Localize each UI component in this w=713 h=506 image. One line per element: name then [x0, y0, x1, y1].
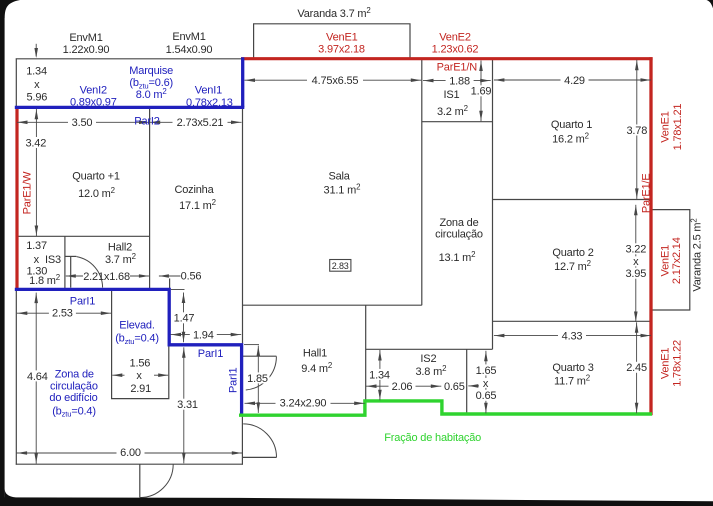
dim 4.29: [494, 79, 651, 81]
ParI marquise bottom (blue): [15, 106, 245, 109]
svg-text:1.34: 1.34: [26, 66, 47, 78]
dim text 2.53: [49, 307, 76, 318]
door hall2 leaf: [70, 256, 72, 287]
svg-text:2.91: 2.91: [130, 383, 151, 395]
varanda north box: [254, 24, 410, 58]
svg-text:13.1 m2: 13.1 m2: [439, 250, 476, 264]
dim text 2.45: [625, 362, 648, 373]
door bottom-left leaf: [139, 464, 141, 497]
svg-text:Marquise: Marquise: [129, 65, 173, 77]
dim 4.33: [494, 335, 651, 337]
svg-text:4.75x6.55: 4.75x6.55: [312, 75, 359, 87]
ParI marquise right (blue): [241, 57, 244, 107]
dim 0.56 arrow: [159, 275, 181, 277]
dim 2.53: [17, 312, 112, 314]
svg-text:1.54x0.90: 1.54x0.90: [166, 44, 213, 56]
dim text 1.34 (IS2): [369, 369, 391, 380]
wall hall1 east: [365, 305, 367, 400]
svg-text:2.21x1.68: 2.21x1.68: [83, 271, 130, 283]
svg-text:do edifício: do edifício: [49, 392, 97, 404]
svg-text:6.00: 6.00: [120, 447, 141, 459]
wall cozinha west x=149.6: [149, 107, 151, 289]
door hall1 leaf: [243, 355, 277, 357]
svg-text:4.29: 4.29: [564, 75, 585, 87]
svg-text:IS1: IS1: [444, 89, 460, 101]
dim text 3.22: [624, 243, 647, 254]
door hall entry swing arc: [243, 424, 276, 458]
svg-text:circulação: circulação: [50, 381, 98, 393]
ParE1/W exterior wall left (red): [15, 107, 18, 290]
dim text 1.94: [190, 329, 217, 340]
svg-text:12.0 m2: 12.0 m2: [78, 186, 115, 200]
svg-text:(bztu=0.4): (bztu=0.4): [115, 333, 159, 346]
dim text 4.64: [25, 370, 50, 381]
dim text 4.75x6.55: [307, 75, 363, 86]
svg-text:1.65: 1.65: [476, 365, 497, 377]
svg-text:IS2: IS2: [420, 353, 436, 365]
dim text 3.78: [625, 125, 648, 136]
svg-text:1.34: 1.34: [369, 369, 390, 381]
svg-text:IS3: IS3: [45, 254, 61, 266]
svg-text:Zona de: Zona de: [439, 217, 478, 229]
svg-text:3.42: 3.42: [25, 137, 46, 149]
dim text 3.24x2.90: [276, 397, 331, 408]
svg-text:4.64: 4.64: [27, 371, 48, 383]
svg-text:Quarto 2: Quarto 2: [552, 247, 593, 259]
svg-text:Hall1: Hall1: [303, 347, 327, 359]
frame bottom bar: [0, 497, 713, 506]
wall is2 east: [466, 349, 468, 414]
dim 3.50: [17, 121, 150, 123]
svg-text:ParE1/E: ParE1/E: [641, 173, 653, 213]
svg-text:ParI1: ParI1: [198, 348, 223, 360]
dim 2.21x1.68 left arrow: [66, 275, 83, 277]
svg-text:2.06: 2.06: [392, 381, 413, 393]
svg-text:0.78x2.13: 0.78x2.13: [186, 97, 233, 109]
svg-text:3.2 m2: 3.2 m2: [437, 104, 468, 118]
svg-text:circulação: circulação: [435, 228, 483, 240]
dim 4.64: [35, 293, 37, 464]
svg-text:ParI1: ParI1: [70, 295, 95, 307]
svg-text:Hall2: Hall2: [108, 241, 132, 253]
svg-text:ParI2: ParI2: [134, 115, 159, 127]
wall is3 east: [64, 236, 66, 289]
door hall2 head tick: [65, 255, 76, 257]
ParE1 exterior wall top (red): [241, 57, 653, 60]
svg-text:Fração de habitação: Fração de habitação: [384, 432, 481, 444]
svg-text:2.73x5.21: 2.73x5.21: [177, 117, 224, 129]
dim text 1.88: [446, 75, 474, 86]
svg-text:3.97x2.18: 3.97x2.18: [318, 43, 365, 55]
dim 1.65x0.65: [485, 351, 487, 414]
svg-text:8.0 m2: 8.0 m2: [136, 87, 167, 101]
wall nib 0.56: [169, 279, 171, 290]
svg-text:Varanda 3.7 m2: Varanda 3.7 m2: [297, 6, 370, 20]
svg-text:12.7 m2: 12.7 m2: [554, 259, 591, 273]
dim text 4.29: [561, 75, 589, 86]
frame left strip: [0, 0, 5, 506]
varanda east box: [652, 210, 690, 310]
ParI1 interior wall path (blue): [15, 289, 242, 415]
svg-text:31.1 m2: 31.1 m2: [324, 182, 361, 196]
svg-text:1.78x1.22: 1.78x1.22: [671, 340, 683, 387]
dim text 3.95: [624, 268, 647, 279]
svg-text:1.8 m2: 1.8 m2: [29, 273, 60, 287]
svg-text:1.23x0.62: 1.23x0.62: [432, 43, 479, 55]
frame top-left corner: [0, 0, 20, 18]
wall marquise top: [16, 58, 243, 60]
dim 1.47: [183, 293, 185, 343]
svg-text:1.56: 1.56: [130, 357, 151, 369]
svg-text:EnvM1: EnvM1: [172, 31, 205, 43]
dim text 6.00: [117, 447, 145, 458]
svg-text:ParE1/W: ParE1/W: [21, 171, 33, 215]
svg-text:17.1 m2: 17.1 m2: [179, 198, 216, 212]
dim 1.88: [423, 80, 491, 82]
svg-text:0.65: 0.65: [476, 390, 497, 402]
svg-text:Quarto 3: Quarto 3: [552, 362, 593, 374]
svg-text:Zona de: Zona de: [55, 368, 94, 380]
wall is1+sala east x=421.8: [421, 59, 423, 305]
svg-text:2.53: 2.53: [52, 308, 73, 320]
door hall1 swing arc: [246, 356, 277, 390]
wall left lower (black): [15, 291, 17, 465]
dim 0.65 arrow left: [468, 385, 479, 387]
dim text 1.47: [172, 312, 197, 323]
door bottom-left swing arc: [140, 464, 173, 497]
dim 1.34 (IS2): [379, 350, 381, 400]
wall hall2/is3 top: [16, 235, 149, 237]
cota box 2.83: [330, 260, 351, 272]
wall quarto2/quarto3 divider: [493, 320, 652, 322]
svg-text:VenI2: VenI2: [80, 85, 107, 97]
wall sala south / hall1 top: [243, 304, 422, 306]
svg-text:1.47: 1.47: [174, 313, 195, 325]
svg-text:1.69: 1.69: [471, 86, 492, 98]
wall quarto1/quarto2 divider: [493, 199, 652, 201]
wall zona east x=492.5: [492, 59, 494, 350]
svg-text:VenE1: VenE1: [659, 348, 671, 380]
dim text 1.85: [246, 372, 270, 383]
svg-text:3.22: 3.22: [625, 244, 646, 256]
dim 1.56 arrows: [112, 374, 124, 376]
dim 3.24x2.90: [245, 402, 365, 404]
svg-text:x: x: [633, 256, 639, 268]
dim EnvM1 pointer arrow: [35, 44, 37, 57]
dim 1.69: [480, 61, 482, 122]
svg-text:1.94: 1.94: [193, 329, 214, 341]
dim 2.73x5.21: [150, 121, 242, 123]
dim text 3.31: [175, 399, 200, 410]
svg-text:11.7 m2: 11.7 m2: [554, 373, 590, 387]
svg-text:1.88: 1.88: [449, 76, 470, 88]
svg-text:Sala: Sala: [328, 171, 350, 183]
svg-text:3.78: 3.78: [626, 125, 647, 137]
dim text 0.65: [473, 390, 499, 401]
svg-text:3.95: 3.95: [625, 268, 646, 280]
dim text 3.50: [68, 117, 96, 128]
dim text 1.65: [473, 364, 499, 375]
svg-text:0.89x0.97: 0.89x0.97: [70, 97, 117, 109]
svg-text:3.7 m2: 3.7 m2: [105, 252, 136, 266]
svg-text:0.56: 0.56: [181, 271, 202, 283]
svg-text:ParI1: ParI1: [227, 368, 239, 393]
dim 6.00: [17, 452, 243, 454]
wall below hall1 x=242.4: [241, 415, 243, 464]
svg-text:2.83: 2.83: [332, 261, 349, 271]
svg-text:16.2 m2: 16.2 m2: [552, 132, 589, 146]
ParE1/E exterior wall right (red): [649, 57, 652, 415]
svg-text:Quarto +1: Quarto +1: [72, 171, 120, 183]
svg-text:Varanda 2.5 m2: Varanda 2.5 m2: [690, 218, 704, 291]
dim 2.45: [636, 322, 638, 413]
svg-text:VenE1: VenE1: [660, 111, 672, 143]
svg-text:VenI1: VenI1: [195, 85, 222, 97]
dim 3.78: [636, 60, 638, 199]
elevator shaft box: [112, 289, 169, 398]
svg-text:x: x: [34, 254, 40, 266]
svg-text:VenE1: VenE1: [659, 245, 671, 277]
svg-text:1.22x0.90: 1.22x0.90: [63, 44, 110, 56]
wall is1 bottom: [422, 121, 493, 123]
svg-text:(bztu=0.4): (bztu=0.4): [52, 405, 96, 418]
svg-text:9.4 m2: 9.4 m2: [301, 361, 332, 375]
dim 2.21x1.68 right arrow: [130, 275, 149, 277]
svg-text:3.8 m2: 3.8 m2: [415, 364, 446, 378]
dim 2.06: [366, 385, 441, 387]
svg-text:3.24x2.90: 3.24x2.90: [280, 398, 327, 410]
dim text 2.73x5.21: [173, 117, 228, 128]
svg-text:1.85: 1.85: [247, 373, 268, 385]
svg-text:1.37: 1.37: [26, 240, 47, 252]
dim text 1.69: [471, 85, 491, 96]
svg-text:x: x: [136, 370, 142, 382]
svg-text:x: x: [483, 378, 489, 390]
dim 3.31: [183, 347, 185, 463]
frame bottom-left corner: [5, 489, 21, 498]
svg-text:x: x: [34, 79, 40, 91]
dim 3.22x3.95: [635, 205, 637, 322]
svg-text:2.45: 2.45: [626, 362, 647, 374]
wall bottom (zona do edificio): [16, 463, 243, 465]
svg-text:0.65: 0.65: [444, 381, 465, 393]
svg-text:1.78x1.21: 1.78x1.21: [672, 104, 684, 151]
dim 3.42: [35, 109, 37, 236]
dim text 2.06: [389, 381, 416, 392]
svg-text:4.33: 4.33: [562, 331, 583, 343]
svg-text:3.50: 3.50: [72, 117, 93, 129]
svg-text:VenE1: VenE1: [326, 32, 358, 44]
svg-text:Cozinha: Cozinha: [174, 184, 214, 196]
dim 1.85 extension: [244, 344, 259, 346]
door hall2 swing arc: [77, 257, 103, 288]
svg-text:Quarto 1: Quarto 1: [551, 119, 592, 131]
frame top-right corner: [707, 0, 713, 8]
wall left upper (black): [15, 58, 17, 108]
svg-text:ParE1/N: ParE1/N: [437, 62, 478, 74]
svg-text:Elevad.: Elevad.: [119, 320, 155, 332]
fracao de habitacao boundary (green): [239, 401, 652, 415]
svg-text:5.96: 5.96: [27, 92, 48, 104]
svg-text:VenE2: VenE2: [439, 32, 471, 44]
dim text 4.33: [558, 330, 586, 341]
svg-text:3.31: 3.31: [177, 399, 198, 411]
dim text 3.42: [23, 137, 48, 148]
dim 1.85: [257, 346, 259, 413]
svg-text:EnvM1: EnvM1: [69, 32, 102, 44]
door hall entry leaf: [243, 456, 277, 458]
dim 1.47 extension: [171, 289, 185, 291]
dim 1.94: [171, 334, 242, 336]
wall sala west x=242.5: [242, 107, 244, 343]
dim 4.75x6.55: [245, 79, 422, 81]
wall is2 top: [366, 348, 493, 350]
svg-text:2.17x2.14: 2.17x2.14: [671, 237, 683, 284]
